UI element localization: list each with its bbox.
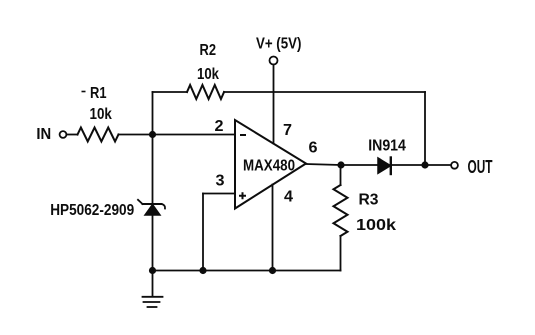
resistor R3 <box>334 185 348 236</box>
node output/R3 junction <box>337 161 344 168</box>
wire node A to op-amp pin 2 <box>153 134 236 136</box>
wire zener to bottom rail <box>152 215 154 271</box>
node OUT junction <box>421 161 428 168</box>
resistor R2 <box>187 85 224 99</box>
terminal V+ <box>270 57 278 65</box>
svg-text:OUT: OUT <box>468 157 493 177</box>
svg-text:10k: 10k <box>197 66 219 83</box>
zener diode D2 HP5062-2909 <box>145 205 160 216</box>
wire pin 3 vertical <box>202 194 204 271</box>
resistor R1 <box>78 128 119 142</box>
wire feedback top left <box>153 91 188 93</box>
svg-text:R2: R2 <box>200 42 217 59</box>
svg-text:3: 3 <box>216 173 225 190</box>
node A (junction dot) <box>149 131 156 138</box>
svg-text:6: 6 <box>309 139 318 156</box>
label R1 dash <box>82 91 86 93</box>
svg-text:IN914: IN914 <box>368 137 406 154</box>
svg-text:10k: 10k <box>90 106 112 123</box>
svg-text:2: 2 <box>215 118 224 135</box>
terminal OUT <box>451 162 458 169</box>
wire bottom rail <box>153 270 341 272</box>
svg-text:7: 7 <box>283 122 292 139</box>
terminal IN <box>60 131 67 138</box>
svg-text:MAX480: MAX480 <box>243 158 295 175</box>
svg-text:IN: IN <box>36 126 51 143</box>
wire feedback left vertical <box>152 92 154 135</box>
wire pin 3 horizontal <box>203 193 235 195</box>
ground <box>152 271 154 297</box>
op-amp minus sign <box>240 134 246 136</box>
zener diode D2 HP5062-2909 wire from node A <box>152 135 154 204</box>
wire feedback top right <box>224 91 425 93</box>
node bottom pin3 junction <box>199 267 206 274</box>
svg-text:4: 4 <box>284 189 293 206</box>
wire IN to R1 <box>67 134 78 136</box>
wire R3 top lead <box>340 165 342 185</box>
node bottom-left junction <box>149 267 156 274</box>
wire R3 bottom lead <box>340 236 342 271</box>
wire R1 to node A <box>119 134 153 136</box>
diode D1 IN914 <box>378 158 391 173</box>
svg-text:HP5062-2909: HP5062-2909 <box>50 202 134 219</box>
node bottom pin4 junction <box>269 267 276 274</box>
wire pin 4 vertical <box>272 185 274 271</box>
op-amp plus sign <box>239 192 246 199</box>
svg-text:R1: R1 <box>90 85 107 102</box>
wire diode to OUT node <box>391 164 425 166</box>
wire OUT node to terminal <box>425 164 451 166</box>
svg-text:R3: R3 <box>359 192 379 209</box>
svg-text:V+ (5V): V+ (5V) <box>256 35 301 52</box>
op-amp U1 MAX480 <box>235 120 306 209</box>
wire V+ to pin 7 <box>273 65 275 144</box>
wire right vertical to output node <box>424 92 426 165</box>
svg-text:100k: 100k <box>356 217 396 234</box>
wire output apex to diode <box>306 164 378 165</box>
